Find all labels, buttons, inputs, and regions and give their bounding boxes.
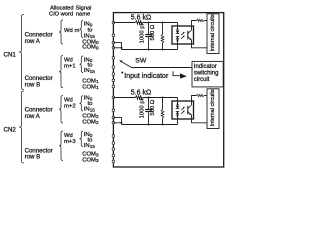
svg-text:m+1: m+1 <box>64 64 76 70</box>
svg-text:COM2: COM2 <box>82 119 99 125</box>
svg-text:CIO word: CIO word <box>49 12 73 18</box>
svg-text:IN15: IN15 <box>84 68 96 74</box>
CN2 row B group brace <box>59 131 63 161</box>
CN1 circuit collector wire <box>192 21 197 31</box>
CN1 circuit emitter wire <box>192 40 208 48</box>
CN1 circuit COM pin wires <box>113 43 121 50</box>
CN2 circuit emitter wire <box>192 115 208 123</box>
CN2 circuit capacitor 1000 pF <box>148 98 150 110</box>
CN2 row A group brace <box>59 96 63 124</box>
svg-text:m+3: m+3 <box>64 139 76 145</box>
svg-text:5.6 kΩ: 5.6 kΩ <box>131 89 151 96</box>
CN2 circuit internal circuits box <box>207 89 219 129</box>
CN1 circuit COM rail dots <box>148 49 150 51</box>
svg-text:circuit: circuit <box>194 77 210 83</box>
CN1 circuit resistor 5.6 kOhm <box>135 21 143 25</box>
CN2 row B IN brace <box>80 131 84 146</box>
svg-text:560 Ω: 560 Ω <box>150 24 156 40</box>
svg-text:Allocated: Allocated <box>50 6 73 12</box>
CN2 circuit optocoupler box <box>172 101 194 119</box>
CN2 circuit COM rail <box>122 124 178 126</box>
CN1 pin terminals <box>112 21 115 24</box>
CN1 circuit wire IN to opto <box>113 22 135 24</box>
CN2 circuit resistor 560 Ohm <box>162 98 164 110</box>
CN2 circuit COM pin wires <box>113 118 121 125</box>
svg-text:1000 pF: 1000 pF <box>140 96 146 118</box>
CN2 circuit resistor 5.6 kOhm <box>135 96 143 100</box>
CN1 circuit opto LED wires <box>177 23 179 30</box>
svg-text:SW: SW <box>135 57 147 64</box>
svg-text:row B: row B <box>25 81 41 88</box>
CN2 circuit opto phototransistor <box>187 106 189 115</box>
input indicator leader arrow <box>173 71 180 75</box>
svg-text:5.6 kΩ: 5.6 kΩ <box>131 14 151 21</box>
CN1 circuit opto phototransistor <box>187 31 189 40</box>
svg-text:Internal circuits: Internal circuits <box>210 89 216 126</box>
svg-text:COM1: COM1 <box>82 84 99 90</box>
svg-text:row A: row A <box>25 113 41 120</box>
CN1 circuit collector resistor <box>197 19 205 21</box>
svg-text:name: name <box>76 12 90 18</box>
svg-text:CN2: CN2 <box>4 127 17 134</box>
svg-text:IN15: IN15 <box>84 107 96 113</box>
unit outer box <box>113 13 223 167</box>
CN1 row B IN brace <box>80 56 84 73</box>
CN2 circuit wire IN to opto <box>113 97 135 99</box>
CN2 circuit node A dots <box>148 97 150 99</box>
svg-text:IN15: IN15 <box>84 143 96 149</box>
CN2 circuit collector wire <box>192 96 197 106</box>
svg-text:COM0: COM0 <box>82 45 99 51</box>
CN2 circuit COM rail dots <box>148 124 150 126</box>
CN1 row A IN brace <box>80 21 84 38</box>
CN1 circuit capacitor 1000 pF <box>148 23 150 35</box>
CN1 circuit optocoupler box <box>172 26 194 44</box>
svg-text:switching: switching <box>194 71 219 77</box>
svg-text:Indicator: Indicator <box>194 64 217 70</box>
CN1 circuit node A dots <box>148 22 150 24</box>
svg-text:row B: row B <box>25 154 41 161</box>
CN1 circuit resistor 560 Ohm <box>162 23 164 35</box>
CN1 circuit internal circuits box <box>207 14 219 54</box>
CN2 circuit opto LED wires <box>177 98 179 105</box>
connector CN1 brace <box>19 15 24 90</box>
svg-text:Signal: Signal <box>76 6 92 12</box>
connector CN2 brace <box>19 91 24 163</box>
CN2 row A IN brace <box>80 96 84 111</box>
CN1 row A group brace <box>59 20 63 44</box>
svg-text:COM3: COM3 <box>82 157 99 163</box>
wire SW to indicator box <box>132 67 193 69</box>
svg-text:CN1: CN1 <box>4 52 17 59</box>
svg-text:Wd m: Wd m <box>64 28 79 34</box>
svg-text:Input indicator: Input indicator <box>124 73 169 80</box>
CN1 row B group brace <box>59 56 63 88</box>
svg-text:m+2: m+2 <box>64 104 76 110</box>
svg-text:1000 pF: 1000 pF <box>140 21 146 43</box>
CN2 circuit collector resistor <box>197 94 205 96</box>
CN2 circuit opto LED pair <box>176 106 180 109</box>
svg-text:row A: row A <box>25 38 41 45</box>
CN1 circuit opto light arrows <box>181 32 184 35</box>
CN2 circuit opto light arrows <box>181 107 184 110</box>
svg-text:560 Ω: 560 Ω <box>150 99 156 115</box>
svg-text:Wd: Wd <box>64 133 73 139</box>
CN1 circuit opto LED pair <box>176 31 180 34</box>
indicator switching circuit box <box>192 61 223 87</box>
CN2 pin terminals <box>112 96 115 99</box>
CN1 circuit COM rail <box>122 49 178 51</box>
svg-text:Internal circuits: Internal circuits <box>210 14 216 51</box>
